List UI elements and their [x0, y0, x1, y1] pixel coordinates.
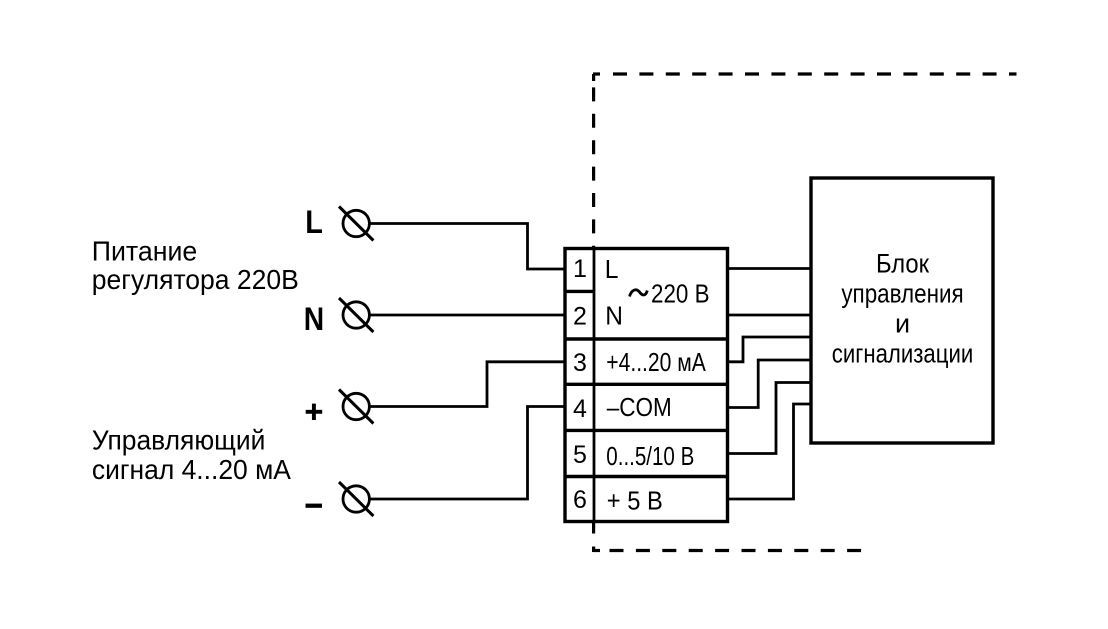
separator pins 3/4	[565, 383, 728, 386]
svg-text:управления: управления	[841, 278, 963, 308]
net label ~220 В	[630, 290, 648, 297]
svg-text:регулятора 220В: регулятора 220В	[92, 264, 299, 295]
terminal + label	[306, 404, 323, 420]
svg-text:сигнализации: сигнализации	[832, 338, 974, 368]
svg-text:L: L	[305, 204, 323, 240]
wire pin 3 to control unit	[729, 337, 811, 362]
control and signaling unit box	[811, 178, 993, 443]
svg-text:N: N	[605, 300, 623, 330]
terminal circle L	[339, 207, 373, 241]
terminal circle -	[339, 482, 373, 516]
terminal - label	[306, 504, 323, 508]
svg-text:0...5/10 В: 0...5/10 В	[606, 441, 694, 471]
svg-text:сигнал 4...20 мА: сигнал 4...20 мА	[92, 454, 292, 485]
svg-text:и: и	[895, 308, 910, 338]
svg-text:Блок: Блок	[876, 248, 929, 278]
separator pins 1/2	[565, 290, 594, 293]
separator pins 2/3	[565, 337, 728, 340]
svg-text:+4...20 мА: +4...20 мА	[606, 347, 706, 377]
wire - to pin 4	[369, 407, 566, 500]
terminal circle +	[339, 390, 373, 424]
svg-text:+ 5 В: + 5 В	[607, 486, 663, 516]
svg-text:4: 4	[573, 395, 587, 423]
svg-text:2: 2	[573, 302, 587, 330]
svg-text:N: N	[304, 301, 324, 337]
separator pins 5/6	[565, 475, 728, 478]
svg-text:–COM: –COM	[607, 392, 672, 422]
wire pin 6 to control unit	[729, 404, 811, 499]
wire pin 4 to control unit	[729, 360, 811, 408]
control unit label	[832, 248, 974, 368]
terminal block divider column line	[593, 249, 596, 522]
svg-text:L: L	[605, 254, 619, 284]
dashed device boundary: left edge (above terminal block)	[592, 74, 595, 248]
dashed device boundary: bottom edge	[593, 549, 861, 552]
terminal block outline	[565, 249, 728, 522]
terminal circle N	[339, 298, 373, 332]
wire N to pin 2	[369, 314, 566, 317]
wire L to pin 1	[369, 224, 566, 270]
wire pin 2 to control unit	[729, 314, 811, 317]
wire pin 5 to control unit	[729, 383, 811, 454]
svg-text:5: 5	[573, 441, 587, 469]
svg-text:220 В: 220 В	[651, 278, 710, 308]
svg-text:6: 6	[573, 486, 587, 514]
dashed device boundary: left edge (below terminal block)	[592, 521, 595, 552]
svg-text:1: 1	[573, 255, 587, 283]
label: Управляющий сигнал 4...20 мА	[92, 424, 292, 485]
svg-text:3: 3	[573, 349, 587, 377]
svg-text:Питание: Питание	[92, 236, 198, 267]
label: Питание регулятора 220В	[92, 236, 299, 296]
dashed device boundary: top edge	[593, 72, 1017, 75]
svg-text:Управляющий: Управляющий	[92, 424, 266, 455]
wire pin 1 to control unit	[729, 267, 811, 270]
separator pins 4/5	[565, 429, 728, 432]
wire + to pin 3	[369, 362, 566, 407]
